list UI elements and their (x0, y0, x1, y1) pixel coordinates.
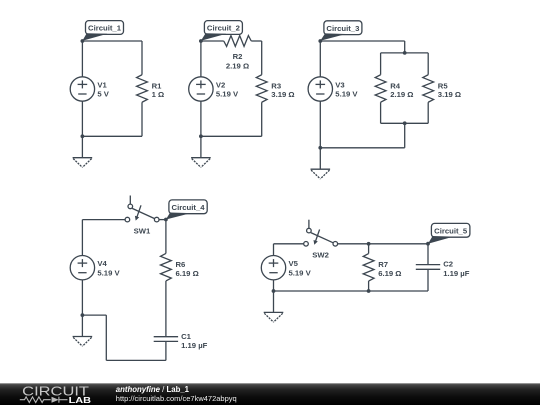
wire circuit5 top left (274, 243, 304, 245)
ground circuit4 (73, 315, 93, 346)
svg-text:Circuit_1: Circuit_1 (88, 24, 122, 33)
wire circuit1 left upper (81, 41, 83, 77)
svg-text:http://circuitlab.com/ce7kw472: http://circuitlab.com/ce7kw472abpyq (116, 394, 237, 403)
wire circuit4 bottom (106, 359, 166, 361)
voltage source V5 (261, 256, 311, 280)
resistor R3 (256, 75, 294, 103)
wire circuit5 bottom (274, 290, 429, 292)
wire circuit4 R6 top stub (165, 220, 167, 254)
wire circuit1 left lower (81, 101, 83, 136)
svg-text:R5: R5 (438, 81, 449, 90)
svg-text:V1: V1 (97, 80, 107, 89)
svg-text:V3: V3 (335, 80, 344, 89)
svg-text:R2: R2 (233, 52, 243, 61)
svg-text:3.19 Ω: 3.19 Ω (438, 90, 461, 99)
junction circuit2 top-left node (199, 39, 203, 43)
svg-text:5.19 V: 5.19 V (216, 90, 239, 99)
voltage source V2 (189, 77, 239, 101)
wire R5 top stub (427, 53, 429, 75)
svg-text:1 Ω: 1 Ω (152, 90, 165, 99)
resistor R4 (375, 75, 413, 103)
junction circuit1 top-left node (81, 39, 85, 43)
wire R4 top stub (380, 53, 382, 75)
switch SW1 (125, 196, 159, 236)
junction circuit3 bottom node (318, 146, 322, 150)
wire circuit5 left upper (273, 244, 275, 256)
voltage source V1 (70, 77, 110, 101)
svg-text:R3: R3 (271, 81, 281, 90)
node Circuit_2 label flag (201, 21, 243, 41)
wire circuit1 right lower (141, 102, 143, 136)
wire circuit4 bottom riser (105, 315, 107, 360)
svg-text:Circuit_3: Circuit_3 (326, 24, 359, 33)
wire circuit3 left lower (319, 101, 321, 148)
junction circuit5 R7 top node (367, 242, 371, 246)
svg-text:5 V: 5 V (97, 90, 109, 99)
svg-text:Circuit_4: Circuit_4 (172, 203, 206, 212)
svg-text:SW1: SW1 (134, 227, 151, 236)
ground circuit5 (264, 291, 284, 322)
junction circuit3 inner top node (403, 51, 407, 55)
wire circuit3 bottom drop (404, 123, 406, 148)
svg-text:6.19 Ω: 6.19 Ω (378, 269, 401, 278)
CircuitLab logo resistor zigzag and diode (20, 397, 68, 403)
wire circuit3 bottom (320, 147, 404, 149)
junction circuit5 bottom-left node (272, 289, 276, 293)
svg-text:R4: R4 (390, 81, 401, 90)
svg-text:V2: V2 (216, 80, 225, 89)
ground circuit1 (73, 136, 93, 167)
resistor R2 (224, 36, 252, 71)
wire R5 bottom stub (427, 102, 429, 123)
wire circuit3 top (320, 40, 404, 42)
svg-text:2.19 Ω: 2.19 Ω (390, 90, 413, 99)
wire circuit4 top left (82, 219, 125, 221)
junction circuit1 bottom node (81, 134, 85, 138)
svg-text:V5: V5 (289, 259, 299, 268)
wire circuit5 top right (338, 243, 428, 245)
svg-text:SW2: SW2 (312, 251, 329, 260)
resistor R5 (423, 75, 461, 103)
svg-text:C1: C1 (181, 332, 192, 341)
wire circuit3 top drop (404, 41, 406, 53)
junction circuit2 bottom node (199, 134, 203, 138)
wire circuit5 left lower (273, 280, 275, 291)
svg-text:5.19 V: 5.19 V (289, 268, 312, 277)
svg-text:anthonyfine / Lab_1: anthonyfine / Lab_1 (116, 385, 190, 394)
capacitor C2 (416, 260, 470, 278)
node Circuit_4 label flag (166, 200, 207, 220)
node Circuit_3 label flag (320, 21, 362, 41)
junction circuit4 ground node (81, 313, 85, 317)
wire circuit2 right lower (261, 102, 263, 136)
svg-text:3.19 Ω: 3.19 Ω (271, 90, 294, 99)
voltage source V3 (308, 77, 358, 101)
svg-text:R6: R6 (176, 260, 186, 269)
svg-text:Circuit_2: Circuit_2 (207, 24, 240, 33)
resistor R6 (161, 253, 199, 281)
wire circuit2 top left (201, 40, 224, 42)
wire circuit4 top right (159, 219, 166, 221)
resistor R7 (363, 254, 401, 281)
ground circuit3 (311, 148, 331, 179)
wire circuit4 junction link (82, 314, 106, 316)
ground circuit2 (191, 136, 211, 167)
svg-text:Circuit_5: Circuit_5 (434, 226, 468, 235)
wire circuit3 inner top (381, 52, 429, 54)
capacitor C1 (154, 332, 208, 350)
switch SW2 (304, 220, 338, 260)
wire circuit5 R7 bottom stub (368, 281, 370, 291)
svg-text:R1: R1 (152, 81, 163, 90)
junction circuit4 top node (164, 218, 168, 222)
wire circuit5 C2 bottom stub (427, 269, 429, 291)
svg-text:V4: V4 (97, 259, 107, 268)
svg-text:2.19 Ω: 2.19 Ω (226, 61, 249, 70)
junction circuit5 top-right node (426, 242, 430, 246)
node Circuit_5 label flag (428, 223, 470, 243)
wire circuit1 top (82, 40, 142, 42)
wire circuit3 inner bottom (381, 122, 429, 124)
voltage source V4 (70, 256, 120, 280)
svg-text:C2: C2 (443, 260, 453, 269)
wire circuit3 left upper (319, 41, 321, 77)
svg-text:1.19 µF: 1.19 µF (181, 341, 208, 350)
svg-text:5.19 V: 5.19 V (97, 268, 120, 277)
junction circuit3 top-left node (318, 39, 322, 43)
junction circuit3 inner bottom node (403, 121, 407, 125)
wire circuit4 C1 bottom stub (165, 341, 167, 360)
wire circuit2 top right (251, 40, 261, 42)
wire circuit4 R6 to C1 (165, 281, 167, 337)
wire circuit4 left lower (81, 280, 83, 315)
svg-text:R7: R7 (378, 260, 388, 269)
wire circuit1 bottom (82, 135, 142, 137)
wire circuit4 left upper (81, 220, 83, 256)
svg-text:6.19 Ω: 6.19 Ω (176, 269, 199, 278)
wire circuit2 right upper (261, 41, 263, 75)
wire R4 bottom stub (380, 102, 382, 123)
wire circuit2 left lower (200, 101, 202, 136)
junction circuit5 R7 bottom node (367, 289, 371, 293)
wire circuit2 left upper (200, 41, 202, 77)
resistor R1 (137, 75, 165, 103)
wire circuit1 right upper (141, 41, 143, 75)
svg-text:LAB: LAB (69, 395, 92, 405)
wire circuit5 C2 top stub (427, 244, 429, 265)
wire circuit2 bottom (201, 135, 262, 137)
wire circuit5 R7 top stub (368, 244, 370, 254)
svg-text:1.19 µF: 1.19 µF (443, 269, 470, 278)
svg-text:5.19 V: 5.19 V (335, 90, 358, 99)
node Circuit_1 label flag (82, 21, 123, 41)
